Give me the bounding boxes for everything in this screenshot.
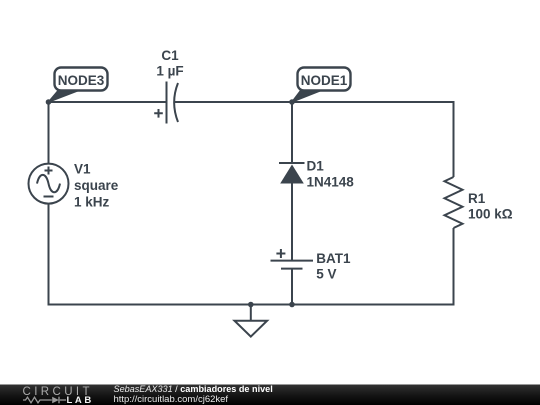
svg-text:1N4148: 1N4148 [307, 175, 355, 190]
svg-text:5 V: 5 V [316, 266, 336, 281]
svg-text:square: square [74, 178, 119, 193]
svg-text:C1: C1 [161, 48, 179, 63]
svg-text:100 kΩ: 100 kΩ [468, 207, 513, 222]
svg-text:D1: D1 [307, 158, 325, 173]
svg-text:NODE1: NODE1 [301, 73, 348, 88]
svg-text:R1: R1 [468, 191, 486, 206]
svg-text:1 kHz: 1 kHz [74, 194, 110, 209]
svg-text:NODE3: NODE3 [58, 73, 105, 88]
svg-text:1 µF: 1 µF [156, 63, 183, 78]
svg-text:BAT1: BAT1 [316, 251, 351, 266]
svg-text:LAB: LAB [67, 395, 94, 405]
svg-text:http://circuitlab.com/cj62kef: http://circuitlab.com/cj62kef [114, 394, 229, 405]
svg-text:SebasEAX331 / cambiadores de n: SebasEAX331 / cambiadores de nivel [114, 384, 273, 394]
svg-text:V1: V1 [74, 162, 91, 177]
